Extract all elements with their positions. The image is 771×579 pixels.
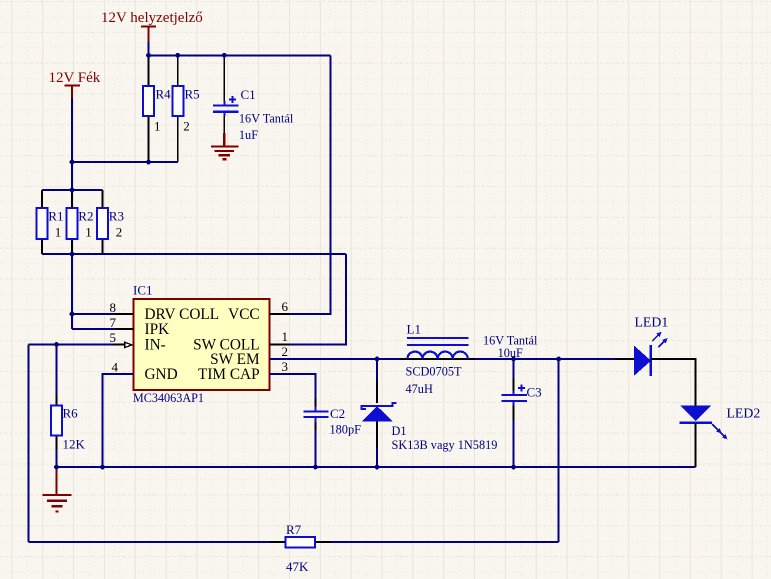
label L1 <box>407 322 421 337</box>
svg-text:12K: 12K <box>63 437 86 452</box>
pin number 2 <box>282 344 289 359</box>
wire left feedback drop to R7 row <box>28 345 30 543</box>
pin number 5 <box>110 330 117 345</box>
junction C3 top at output wire <box>511 357 516 362</box>
svg-text:1: 1 <box>55 225 62 240</box>
power bar symbol 12V Fék <box>65 86 81 98</box>
svg-text:TIM CAP: TIM CAP <box>198 366 260 383</box>
value label 47uH <box>406 382 433 396</box>
label R6 <box>63 406 79 421</box>
svg-text:5: 5 <box>110 330 117 345</box>
junction C3 bottom at ground rail <box>511 465 516 470</box>
pin number 1 <box>282 329 289 344</box>
svg-text:1uF: 1uF <box>239 128 258 142</box>
pin 6 stub <box>270 313 290 315</box>
LED LED1 <box>634 332 668 376</box>
pin 2 stub <box>270 358 290 360</box>
junction R6 bottom at ground rail <box>54 465 59 470</box>
label MC34063AP1 <box>133 391 204 405</box>
pin 4 stub <box>115 373 134 375</box>
value label SK13B vagy 1N5819 <box>392 438 498 452</box>
capacitor C2 <box>304 398 329 467</box>
resistor R4 <box>143 55 154 162</box>
IC1 pin name DRV COLL <box>145 306 220 323</box>
svg-text:LED1: LED1 <box>635 315 669 330</box>
junction bracket top at R2 <box>70 188 75 193</box>
pin 8 stub <box>115 313 134 315</box>
pin number 2 of R5 <box>183 119 190 134</box>
svg-text:C1: C1 <box>241 87 256 102</box>
svg-text:R4: R4 <box>156 87 172 102</box>
resistor R5 <box>172 55 183 162</box>
pin 3 stub <box>270 373 290 375</box>
svg-text:SK13B vagy 1N5819: SK13B vagy 1N5819 <box>392 438 498 452</box>
LED LED2 <box>680 405 728 439</box>
svg-text:R2: R2 <box>78 209 93 224</box>
svg-text:VCC: VCC <box>228 306 259 323</box>
svg-text:6: 6 <box>282 299 289 314</box>
value label SCD0705T <box>406 365 463 379</box>
pin number 2 of R3 <box>116 225 123 240</box>
svg-text:C3: C3 <box>527 385 542 400</box>
svg-text:R5: R5 <box>185 87 200 102</box>
svg-text:R1: R1 <box>48 209 63 224</box>
value label 16V Tantál (C1) <box>239 112 294 126</box>
junction D1 top at output wire <box>375 357 380 362</box>
svg-text:2: 2 <box>116 225 123 240</box>
inductor L1 <box>400 338 475 359</box>
wire SW COLL riser down to pin 1 <box>270 254 346 345</box>
IC1 pin name IN- <box>145 336 166 353</box>
wire GND pin 4 down to ground rail <box>103 374 134 467</box>
svg-text:2: 2 <box>183 119 190 134</box>
svg-text:3: 3 <box>282 359 289 374</box>
svg-text:R6: R6 <box>63 406 79 421</box>
label C3 <box>527 385 542 400</box>
svg-text:1: 1 <box>154 119 161 134</box>
svg-text:12V Fék: 12V Fék <box>49 70 101 86</box>
svg-text:LED2: LED2 <box>727 406 761 421</box>
svg-text:SCD0705T: SCD0705T <box>406 365 463 379</box>
IC1 pin name SW COLL <box>193 336 259 353</box>
resistor R6 <box>51 345 62 468</box>
junction R7 riser at output wire <box>556 357 561 362</box>
pin number 8 <box>110 300 117 315</box>
pin number 1 of R4 <box>154 119 161 134</box>
label IC1 <box>133 283 153 298</box>
wire R7 row right segment <box>315 541 559 543</box>
wire top rail node 12V <box>148 54 331 56</box>
wire pin 2 output run SW EM to LED1 <box>270 358 634 360</box>
junction pin 4 at ground rail <box>100 465 105 470</box>
IC1 pin name VCC <box>228 306 259 323</box>
svg-text:47uH: 47uH <box>406 382 433 396</box>
svg-text:2: 2 <box>282 344 289 359</box>
IC1 pin name TIM CAP <box>198 366 260 383</box>
label LED2 <box>727 406 761 421</box>
power bar symbol 12V helyzetjelző <box>141 27 156 42</box>
power net label 12V helyzetjelző <box>101 10 203 26</box>
label R3 <box>109 209 124 224</box>
svg-text:7: 7 <box>110 315 117 330</box>
wire R7 riser up to output node <box>558 359 560 542</box>
label LED1 <box>635 315 669 330</box>
label R4 <box>156 87 172 102</box>
pin number 4 <box>112 360 119 375</box>
value label 1uF <box>239 128 258 142</box>
pin number 1 of R2 <box>85 225 92 240</box>
wire IN- feedback node <box>29 344 113 346</box>
IC1 pin name IPK <box>145 321 170 338</box>
junction top rail at R4 <box>146 53 151 58</box>
wire R4 R5 bottoms to 12V Fék column <box>72 161 178 163</box>
svg-text:IPK: IPK <box>145 321 170 338</box>
ground symbol main GND <box>43 468 72 512</box>
wire pin 3 to C2 <box>270 374 316 410</box>
svg-text:L1: L1 <box>407 322 421 337</box>
svg-text:MC34063AP1: MC34063AP1 <box>133 391 204 405</box>
svg-text:10uF: 10uF <box>498 346 523 360</box>
IC1 pin name SW EM <box>210 351 260 368</box>
pin number 3 <box>282 359 289 374</box>
label R2 <box>78 209 93 224</box>
junction pin 8 branch <box>70 312 75 317</box>
svg-text:R3: R3 <box>109 209 124 224</box>
wire 12V Fék drop to R1R2R3 top bracket <box>71 98 73 190</box>
pin number 1 of R1 <box>55 225 62 240</box>
wire ground rail <box>57 466 696 468</box>
svg-text:C2: C2 <box>330 406 345 421</box>
junction C2 bottom at ground rail <box>313 465 318 470</box>
pin 7 stub <box>115 328 134 330</box>
resistor R1 <box>37 190 48 254</box>
wire bottom bracket and run to SW COLL riser <box>42 253 346 255</box>
label D1 <box>392 424 407 438</box>
junction D1 bottom at ground rail <box>375 465 380 470</box>
capacitor C1 <box>213 55 239 133</box>
value label 47K <box>286 559 309 574</box>
label R7 <box>286 522 302 537</box>
svg-text:1: 1 <box>282 329 289 344</box>
label C2 <box>330 406 345 421</box>
junction top rail at R5 <box>175 53 180 58</box>
label C1 <box>241 87 256 102</box>
wire LED2 cathode down to ground rail <box>695 424 697 467</box>
label R1 <box>48 209 63 224</box>
value label 10uF <box>498 346 523 360</box>
value label 180pF <box>330 423 362 437</box>
wire R1R2R3 top bracket <box>42 189 103 191</box>
junction R4 bottom <box>146 160 151 165</box>
junction bracket bottom at R2 <box>70 252 75 257</box>
wire from 12V helyzetjelző bar to top rail <box>148 42 150 55</box>
wire LED1 cathode to LED2 anode <box>651 359 696 405</box>
svg-text:12V helyzetjelző: 12V helyzetjelző <box>101 10 203 26</box>
diode D1 <box>362 359 397 467</box>
op-amp style IC U1 body IC1 <box>134 299 270 390</box>
svg-text:8: 8 <box>110 300 117 315</box>
svg-text:R7: R7 <box>286 522 302 537</box>
svg-text:D1: D1 <box>392 424 407 438</box>
label R5 <box>185 87 200 102</box>
svg-text:IC1: IC1 <box>133 283 153 298</box>
resistor R2 <box>67 190 78 254</box>
pin 5 input arrow <box>110 342 132 347</box>
capacitor C3 <box>502 359 527 467</box>
junction IN- node at R6 <box>54 342 59 347</box>
svg-text:GND: GND <box>145 366 178 383</box>
svg-text:47K: 47K <box>286 559 309 574</box>
resistor R3 <box>97 190 108 254</box>
pin 1 stub <box>270 344 290 346</box>
wire sense column down to pins 8 and 7 <box>72 254 134 329</box>
svg-text:16V Tantál: 16V Tantál <box>239 112 294 126</box>
ground symbol under C1 <box>211 133 238 159</box>
wire VCC riser from top rail down to pin 6 <box>270 55 331 314</box>
value label 12K <box>63 437 86 452</box>
svg-text:IN-: IN- <box>145 336 166 353</box>
resistor R7 <box>270 537 331 548</box>
pin number 7 <box>110 315 117 330</box>
junction top rail at C1 <box>222 53 227 58</box>
svg-text:4: 4 <box>112 360 119 375</box>
junction Fék at R4R5 bottom row <box>70 160 75 165</box>
wire R7 row left segment <box>29 541 286 543</box>
pin number 6 <box>282 299 289 314</box>
value label 16V Tantál (C3) <box>483 334 538 348</box>
svg-text:1: 1 <box>85 225 92 240</box>
IC1 pin name GND <box>145 366 178 383</box>
power net label 12V Fék <box>49 70 101 86</box>
svg-text:180pF: 180pF <box>330 423 362 437</box>
